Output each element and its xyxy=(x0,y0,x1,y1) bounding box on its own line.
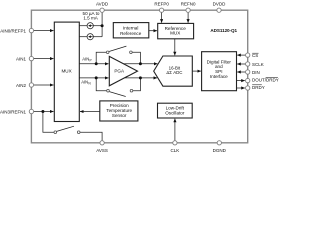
svg-text:AIN: AIN xyxy=(81,80,88,85)
svg-text:AIN3/REFN1: AIN3/REFN1 xyxy=(0,109,26,114)
svg-text:CLK: CLK xyxy=(171,148,180,153)
svg-text:DOUT/DRDY: DOUT/DRDY xyxy=(252,77,279,82)
svg-text:DIN: DIN xyxy=(252,70,260,75)
svg-text:ADS1120-Q1: ADS1120-Q1 xyxy=(210,28,237,33)
svg-text:AIN: AIN xyxy=(82,57,89,62)
svg-text:Interface: Interface xyxy=(210,74,228,79)
svg-text:AVSS: AVSS xyxy=(96,148,108,153)
svg-text:Reference: Reference xyxy=(120,31,142,36)
svg-text:CS: CS xyxy=(252,53,258,58)
svg-text:DGND: DGND xyxy=(213,148,227,153)
svg-text:DVDD: DVDD xyxy=(213,2,227,7)
svg-text:P: P xyxy=(90,59,92,63)
svg-text:Internal: Internal xyxy=(123,26,138,31)
svg-text:AVDD: AVDD xyxy=(96,2,109,7)
svg-text:MUX: MUX xyxy=(61,68,71,73)
svg-text:N: N xyxy=(88,82,91,86)
svg-text:AIN1: AIN1 xyxy=(16,56,27,61)
svg-text:REFN0: REFN0 xyxy=(181,2,196,7)
svg-text:MUX: MUX xyxy=(170,31,180,36)
svg-text:PGA: PGA xyxy=(114,69,125,74)
svg-text:AIN0/REFP1: AIN0/REFP1 xyxy=(0,28,26,33)
svg-text:Sensor: Sensor xyxy=(112,113,127,118)
svg-text:REFP0: REFP0 xyxy=(154,2,169,7)
svg-text:AIN2: AIN2 xyxy=(16,83,27,88)
svg-text:1.5 mA: 1.5 mA xyxy=(83,16,98,21)
svg-text:DRDY: DRDY xyxy=(252,85,265,90)
svg-text:ΔΣ ADC: ΔΣ ADC xyxy=(166,70,182,75)
svg-text:Oscillator: Oscillator xyxy=(165,110,185,115)
svg-text:SCLK: SCLK xyxy=(252,62,264,67)
